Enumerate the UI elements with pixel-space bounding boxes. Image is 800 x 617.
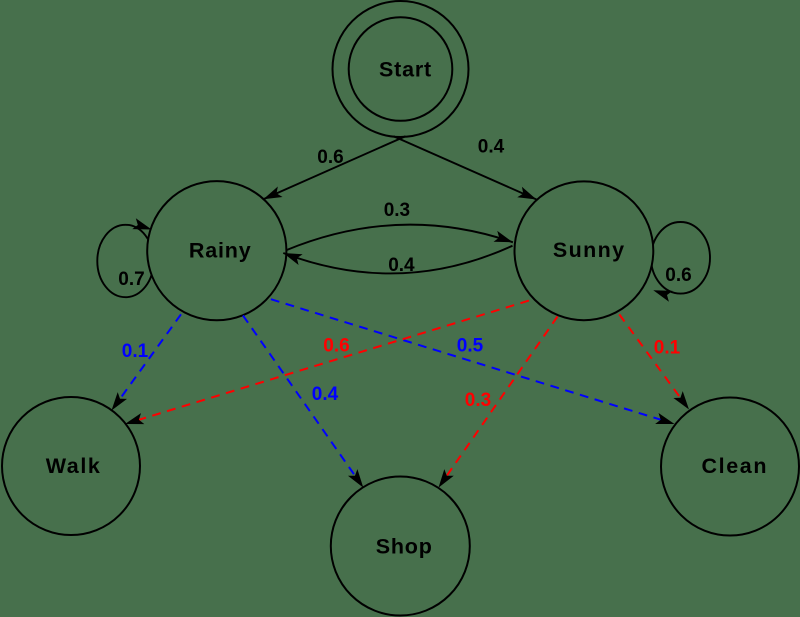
wire Rainy->Shop dashed [243,316,355,476]
observation node Walk [2,397,140,535]
observation node Clean [661,398,799,536]
arrowhead of Sunny self-loop [651,285,672,302]
emission Rainy->Walk (blue dashed, 0.1) [107,314,181,414]
observation node Shop [331,477,470,616]
edge Start->Sunny [394,136,539,205]
arrowhead at Sunny [494,231,515,248]
wire Sunny->Rainy curve [283,246,512,274]
svg-text:Rainy: Rainy [189,239,252,263]
self-loop Sunny curve [651,222,710,294]
wire Sunny->Walk dashed [139,301,529,420]
svg-text:0.6: 0.6 [317,147,343,168]
svg-text:0.3: 0.3 [384,200,410,221]
svg-text:0.1: 0.1 [122,341,149,362]
arrowhead at Rainy [261,186,283,204]
svg-text:Shop: Shop [376,534,433,558]
arrowhead at Clean [655,413,676,429]
emission Sunny->Walk (red dashed, 0.6) [123,301,529,430]
edge Start->Rainy [261,136,406,204]
state node Start (double circle) [333,1,469,137]
svg-text:0.1: 0.1 [654,338,681,359]
svg-text:0.5: 0.5 [457,336,484,357]
arrowhead at Walk [107,392,127,414]
wire Rainy->Walk dashed [120,314,181,399]
inner circle [349,17,453,121]
arrowhead at Clean [673,391,693,413]
svg-text:Sunny: Sunny [553,238,626,262]
self-loop Sunny arrowhead and label 0.6 [651,265,691,302]
outer circle [333,1,469,137]
self-loop Rainy arrowhead and label 0.7 [118,218,153,290]
svg-text:0.3: 0.3 [465,390,491,411]
arrowhead at Shop [348,469,368,491]
svg-text:0.6: 0.6 [665,265,691,286]
wire Rainy->Sunny curve [286,225,513,250]
svg-text:0.6: 0.6 [323,336,349,357]
arrowhead at Shop [434,469,454,491]
emission Rainy->Shop (blue dashed, 0.4) [243,316,368,491]
state node Rainy [147,181,286,320]
wire Sunny->Clean dashed [619,314,680,397]
svg-text:0.4: 0.4 [388,255,415,276]
wire Sunny->Shop dashed [447,317,558,476]
svg-text:Clean: Clean [702,454,769,478]
svg-text:Walk: Walk [46,454,102,478]
edge Sunny->Rainy (bottom curve) [281,246,512,276]
svg-text:0.4: 0.4 [312,384,339,405]
svg-text:Start: Start [379,58,432,82]
wire Rainy->Clean dashed [271,299,661,420]
wire Start->Sunny [394,136,537,199]
emission Sunny->Clean (red dashed, 0.1) [619,314,693,412]
state node Sunny [515,181,654,320]
arrowhead of Rainy self-loop [132,218,153,235]
arrowhead at Rainy [281,248,302,265]
emission Rainy->Clean (blue dashed, 0.5) [271,299,676,429]
emission Sunny->Shop (red dashed, 0.3) [434,317,558,491]
wire Start->Rainy [263,136,405,199]
arrowhead at Sunny [517,187,539,205]
arrowhead at Walk [123,413,144,429]
svg-text:0.4: 0.4 [478,137,505,158]
self-loop Rainy curve [97,225,153,297]
edge Rainy->Sunny (top curve) [286,200,514,250]
svg-text:0.7: 0.7 [118,269,144,290]
